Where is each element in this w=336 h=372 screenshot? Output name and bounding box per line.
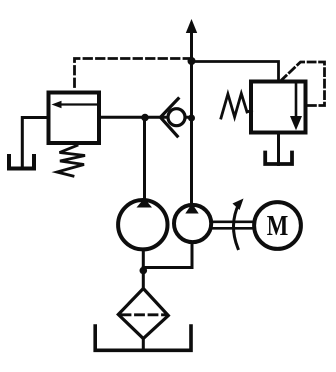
- rotation arrow: [233, 204, 239, 249]
- wire pump P1 suction: [142, 251, 145, 289]
- unloading valve V1 spring: [57, 146, 85, 177]
- junction node check valve outlet: [188, 115, 195, 122]
- wire pump P2 suction: [143, 244, 192, 268]
- relief valve V2 arrow: [295, 83, 298, 117]
- shaft double line: [211, 221, 253, 224]
- check valve: [168, 109, 185, 126]
- wire pump P1 riser: [143, 118, 146, 200]
- pump P2: [174, 205, 211, 242]
- wire filter to tank: [142, 339, 145, 351]
- junction node suction: [140, 267, 148, 275]
- svg-text:M: M: [267, 210, 289, 242]
- arrow system outlet: [186, 19, 197, 33]
- junction node main line top: [188, 57, 196, 65]
- unloading valve V1 arrow: [58, 103, 97, 105]
- pilot line dashed relief valve: [281, 62, 325, 106]
- wire main pressure line vertical: [190, 31, 193, 204]
- wire main horizontal line: [99, 116, 192, 119]
- tank T3 bottom: [95, 326, 191, 350]
- wire left valve to tank: [22, 118, 48, 168]
- relief valve V2 spring: [221, 94, 252, 119]
- filter F1: [118, 289, 168, 339]
- pilot line dashed to left valve: [75, 59, 192, 91]
- junction node pump P1 riser: [141, 114, 149, 122]
- unloading valve V1 body: [49, 93, 100, 144]
- motor M1 circle: [254, 202, 301, 249]
- tank T2 right: [265, 153, 292, 165]
- tank T1 left: [9, 156, 34, 169]
- pump P1: [118, 200, 167, 249]
- relief valve V2 body: [251, 82, 306, 133]
- wire relief valve drain: [277, 133, 280, 165]
- wire junction to right valve: [192, 62, 279, 83]
